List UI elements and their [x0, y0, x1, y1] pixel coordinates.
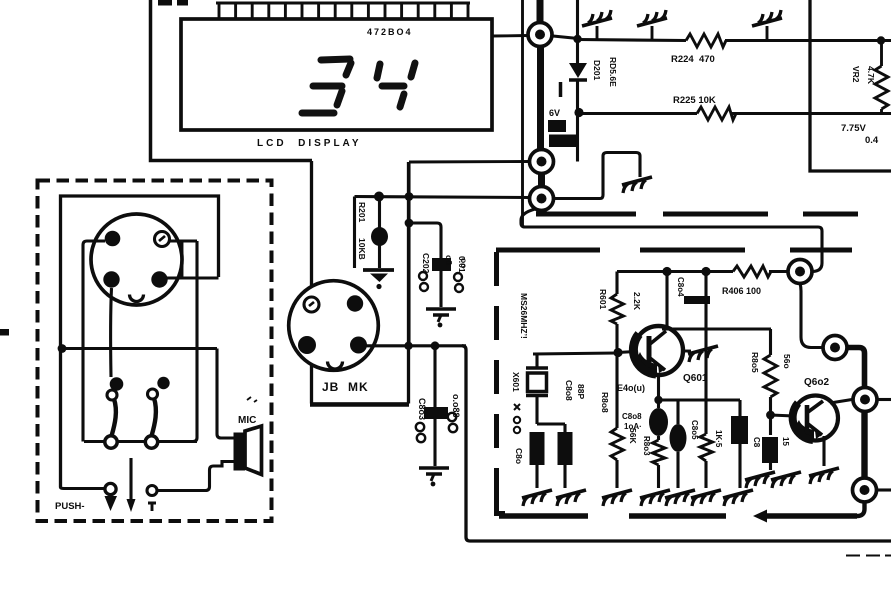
svg-text:C202: C202: [421, 253, 431, 274]
ground C202: [426, 309, 456, 327]
wire diode branch vertical: [576, 0, 579, 63]
crystal X601: [526, 354, 548, 424]
pin circle 10: [528, 23, 552, 47]
svg-text:472BO4: 472BO4: [367, 27, 413, 37]
wire jack pin4 to node: [366, 344, 466, 347]
wire mic pin2 down to switch common: [193, 241, 197, 442]
small mark above MIC: [247, 397, 257, 402]
push switch actuator: [127, 458, 136, 512]
resistor R603: [653, 440, 666, 465]
wire pin56 to pin 57: [800, 283, 822, 348]
capacitor C606: [731, 400, 748, 488]
node junction at diode top: [573, 35, 581, 43]
ground C605: [665, 490, 695, 506]
wire R602 to ground: [615, 460, 618, 488]
pin circle 12: [530, 187, 554, 211]
wire vertical from display box bottom: [407, 162, 410, 346]
svg-text:Q6o2: Q6o2: [804, 377, 829, 388]
ground pin12 branch: [622, 177, 652, 193]
wire pin57 to bus corner: [848, 348, 865, 388]
wire node to bottom rail: [462, 346, 891, 541]
C610 ring marks: [514, 404, 520, 433]
node junction C203 top: [431, 341, 440, 350]
ground R602: [602, 490, 632, 506]
bottom right dashes: [846, 555, 891, 557]
resistor R605: [764, 329, 777, 435]
TX dashed box top edge: [496, 248, 852, 253]
C203 ring marks: [416, 413, 457, 442]
jack pin 4 (filled): [350, 337, 367, 354]
wire mic pin1 left and down: [83, 241, 105, 442]
resistor VR (right box): [875, 41, 888, 114]
resistor R601: [611, 294, 624, 324]
svg-text:E4o(u): E4o(u): [617, 383, 645, 393]
outer display module box left edge: [151, 0, 313, 161]
svg-text:R8o5: R8o5: [750, 352, 760, 373]
wire pin58 to right edge: [877, 398, 891, 401]
wire switch bottom rail: [84, 440, 197, 443]
ground top 1: [582, 10, 612, 40]
svg-text:X601: X601: [511, 372, 521, 392]
wire R225 rail: [579, 112, 891, 115]
wire crystal to base node: [533, 353, 617, 354]
wire pin12 long rail to pin 56: [521, 209, 822, 272]
capacitor C203 lead: [433, 346, 436, 466]
switch S2 bottom contact: [145, 436, 157, 448]
wire mic pin4 to box corner: [167, 276, 219, 279]
svg-text:10KB: 10KB: [357, 238, 367, 260]
wire collector rail: [662, 327, 771, 330]
svg-text:C8o: C8o: [514, 448, 524, 464]
node junction emitter rail: [654, 396, 662, 404]
wire C202 tap: [409, 223, 441, 258]
ground Q602: [809, 468, 839, 484]
mic pin 4 (filled): [151, 271, 167, 287]
svg-text:C8o8: C8o8: [564, 380, 574, 401]
svg-text:RD5.6E: RD5.6E: [608, 57, 618, 87]
svg-text:1K·5: 1K·5: [714, 430, 723, 448]
resistor R201 lead left: [353, 197, 356, 269]
capacitor C602 electrolytic: [649, 408, 668, 440]
wire mic pin2 right: [170, 239, 197, 242]
C202 ring marks: [419, 272, 463, 292]
TX dashed box left edge: [494, 252, 499, 514]
wire emitter rail: [659, 398, 741, 401]
node junction diode / R225: [574, 108, 583, 117]
node junction C202 tap: [405, 219, 414, 228]
speaker magnet: [234, 433, 246, 471]
capacitor C604 marks: [676, 277, 710, 304]
svg-text:2.2K: 2.2K: [632, 292, 642, 311]
svg-text:R8o3: R8o3: [642, 436, 651, 456]
capacitor C202: [432, 258, 451, 307]
node junction collector riser: [662, 267, 671, 276]
ground top 2: [637, 10, 667, 40]
wire inner box to push contact: [61, 488, 105, 489]
ground C610: [522, 490, 552, 506]
switch S1 arm: [112, 399, 116, 436]
pin circle 57: [823, 336, 847, 360]
pin circle 60: [853, 478, 877, 502]
resistor R602: [611, 428, 624, 460]
LCD connection pins (tick marks): [219, 2, 468, 19]
svg-text:o8: o8: [444, 255, 454, 265]
svg-text:88P: 88P: [576, 384, 586, 399]
capacitor C201 electrolytic: [371, 197, 388, 269]
node junction R604 branch: [701, 267, 710, 276]
bottom edge arrow tip: [753, 510, 767, 523]
svg-text:6V: 6V: [549, 108, 560, 118]
capacitor C607: [762, 437, 778, 470]
svg-text:oo: oo: [459, 258, 469, 268]
switch S2 arm: [152, 398, 156, 436]
svg-text:VR2: VR2: [851, 66, 861, 83]
wire R601 to base node: [615, 324, 618, 353]
push switch contact A: [105, 483, 118, 511]
jack pin 2 (filled): [347, 295, 363, 311]
switch S1 top contact: [107, 377, 123, 400]
wire mic pin3 down: [109, 288, 113, 377]
wire pin60 to TX bottom edge: [857, 503, 865, 517]
dashed section boundary row: [536, 212, 858, 217]
wire Q601 emitter: [657, 374, 660, 408]
wire rail down to speaker: [217, 349, 234, 439]
wire Q602 emitter to ground: [822, 436, 825, 466]
TX dashed box bottom-left corner: [497, 490, 506, 514]
switch S2 top contact: [148, 377, 170, 399]
svg-text:R601: R601: [598, 289, 608, 310]
ground C607 a: [745, 472, 775, 488]
mic pin 2 (ring): [155, 232, 170, 247]
pin circle 56: [788, 260, 812, 284]
node junction Q602 base: [766, 411, 775, 420]
jack pin 3 (filled): [298, 336, 316, 354]
switch S1 bottom contact: [105, 436, 117, 448]
svg-text:R224 470: R224 470: [671, 54, 715, 65]
pin circle 58: [853, 388, 877, 412]
wire outer box bottom to pin 8: [409, 160, 530, 163]
capacitor C605: [670, 400, 687, 488]
capacitor C203 body: [424, 407, 448, 419]
svg-text:C8o8: C8o8: [622, 412, 642, 421]
LCD digit 3: [302, 59, 351, 113]
wire pin60 to right edge: [877, 488, 891, 491]
svg-text:C8o3: C8o3: [417, 398, 427, 420]
node junction common rail: [58, 344, 67, 353]
svg-text:LCD DISPLAY: LCD DISPLAY: [257, 138, 362, 149]
microphone unit dashed box: [38, 181, 272, 522]
svg-text:7.75V: 7.75V: [841, 123, 866, 134]
node junction R201 top: [374, 192, 384, 202]
wire R224 rail: [578, 40, 891, 41]
ground C607 b: [771, 472, 801, 488]
node junction VR top: [877, 36, 885, 44]
svg-text:PUSH-: PUSH-: [55, 501, 85, 512]
capacitor C609: [558, 424, 573, 488]
svg-text:R225 10K: R225 10K: [673, 95, 716, 106]
wire Q602 collector to pin 58: [830, 400, 852, 404]
transistor Q601: [633, 326, 683, 375]
svg-text:0.4: 0.4: [865, 135, 879, 146]
ground R604: [691, 490, 721, 506]
meter unit box edge: [810, 0, 891, 171]
inner box top/left/right edges: [61, 196, 219, 488]
wire node to pin8 rail: [576, 113, 579, 162]
thick bus wire above pin 10: [537, 0, 544, 22]
wire collector riser: [665, 272, 668, 330]
svg-text:R8o8: R8o8: [600, 392, 610, 413]
svg-text:1oA·: 1oA·: [624, 422, 642, 431]
wire base to Q601: [618, 352, 635, 353]
ground plate R201/C201: [363, 270, 394, 289]
label block TP201: [548, 120, 566, 132]
resistor R604 branch: [700, 272, 713, 489]
node junction jack box edge: [404, 342, 412, 350]
left margin mark: [0, 329, 9, 336]
node junction base: [613, 348, 622, 357]
mic connector circle: [91, 214, 182, 305]
wire node rail to pin 12: [355, 197, 530, 198]
label block D202: [549, 135, 578, 148]
wire base Q602: [771, 415, 795, 416]
ground R603: [640, 490, 670, 506]
jack notch: [328, 362, 343, 370]
svg-text:15: 15: [781, 437, 790, 446]
wire crystal caps tie: [537, 422, 565, 425]
wire top bus line above LCD: [216, 2, 470, 5]
wire base node down: [615, 353, 618, 428]
node junction rail/vertical: [405, 192, 414, 201]
svg-text:C8o4: C8o4: [676, 277, 685, 297]
svg-text:4.7K: 4.7K: [866, 66, 876, 85]
svg-text:Q601: Q601: [683, 373, 708, 384]
wire pin 10 to node: [553, 36, 578, 39]
TX dashed box bottom edge: [499, 513, 857, 518]
wire push contact B to speaker: [158, 462, 235, 491]
wire speaker common rail: [61, 347, 217, 350]
mic pin 3 (filled): [103, 271, 119, 287]
capacitor C610: [530, 432, 545, 488]
resistor R406: [733, 266, 771, 277]
svg-text:R406 100: R406 100: [722, 286, 761, 296]
push switch contact B: [147, 486, 157, 512]
resistor R225: [697, 107, 736, 120]
svg-text:R201: R201: [357, 202, 367, 223]
diode D201: [561, 63, 588, 97]
wire pin12 to ground branch: [554, 153, 640, 199]
speaker cone: [245, 426, 262, 475]
outer box right edge: [521, 0, 524, 227]
mic notch: [130, 295, 144, 302]
mic pin 1 (filled): [105, 231, 121, 247]
wire LCD to pin 10: [492, 34, 528, 37]
jack pin 1 (ring): [304, 297, 319, 312]
MIC jack box: [310, 161, 409, 404]
ground C203: [419, 468, 449, 486]
LCD digit 4: [377, 63, 415, 107]
pin circle 8: [530, 150, 554, 174]
svg-text:JB MK: JB MK: [322, 380, 369, 394]
transistor Q602: [793, 396, 838, 441]
ground top 3: [752, 10, 782, 40]
wire R603 ground: [657, 465, 660, 488]
thick bus wire pin 10 to pin 8: [537, 47, 544, 149]
MIC jack connector circle J?: [289, 281, 379, 371]
svg-text:C8: C8: [752, 437, 761, 448]
wire TX supply rail: [617, 270, 789, 273]
ground right of Q601: [683, 346, 718, 362]
LCD display box U?: [181, 19, 492, 130]
cut-off text top-left: [158, 0, 172, 6]
ground C609: [556, 490, 586, 506]
ground C606: [723, 490, 753, 506]
svg-text:MS26MHZ’!: MS26MHZ’!: [519, 293, 529, 339]
wire diode to node R225: [576, 80, 579, 113]
thick bus wire pin 8 to pin 12: [538, 174, 545, 186]
wire bias branch: [615, 272, 618, 295]
svg-text:MIC: MIC: [238, 415, 256, 426]
wire loop stub: [181, 241, 184, 278]
thick wire pin58 to pin 60: [861, 413, 867, 478]
resistor R224: [686, 34, 726, 47]
svg-text:56o: 56o: [782, 354, 792, 369]
svg-text:D201: D201: [592, 60, 602, 81]
